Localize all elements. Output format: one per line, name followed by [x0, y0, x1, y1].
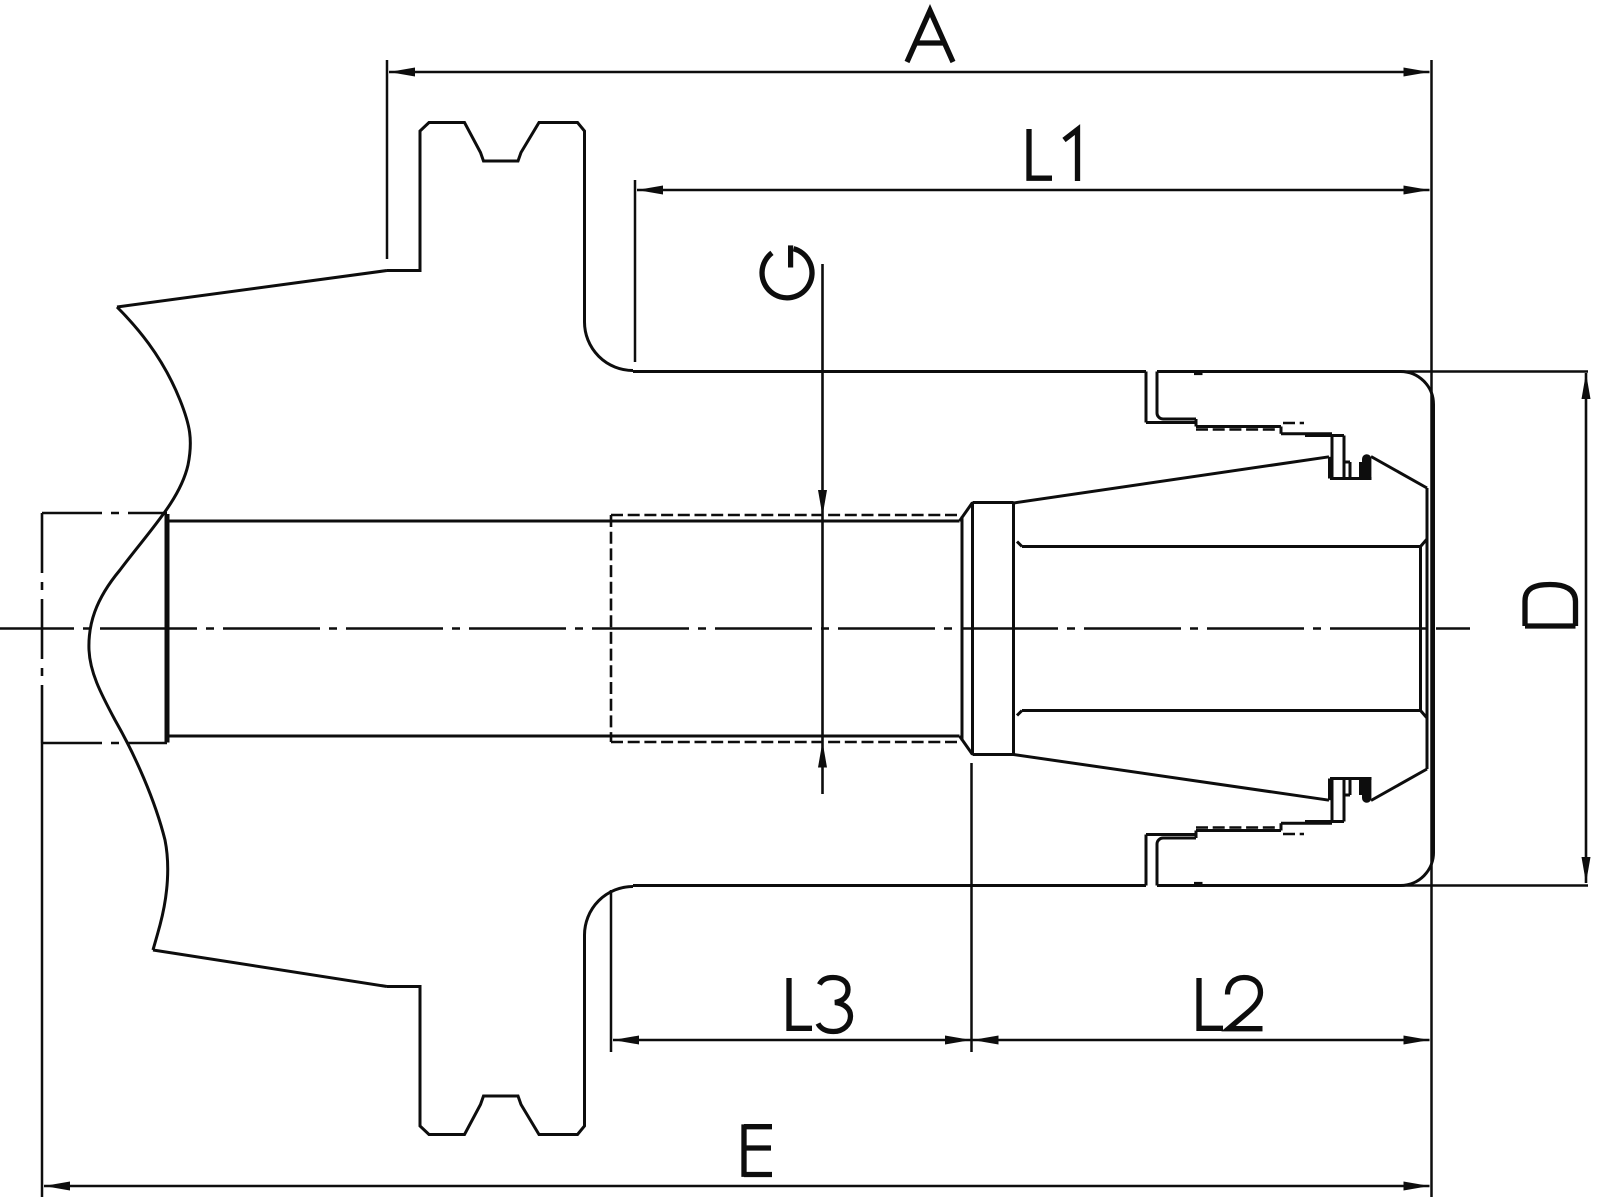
center line end dash [1436, 627, 1470, 630]
dimension L2 [973, 978, 1430, 1045]
dimension G [762, 245, 827, 794]
flange top [387, 123, 633, 371]
body top line + D extension [633, 370, 1146, 373]
dimension L3 [611, 763, 972, 1052]
collet groove pocket top [1330, 436, 1372, 479]
body cone bottom edge [153, 950, 387, 987]
center line [0, 627, 1428, 629]
label E [744, 1124, 772, 1177]
dimension D [1525, 373, 1591, 883]
collet taper top [1014, 457, 1330, 503]
cap thread steps bottom [1146, 833, 1196, 836]
label L1 [1029, 129, 1078, 181]
cap nose cone bottom [1371, 769, 1427, 801]
collet bore [1017, 542, 1022, 547]
collet groove pocket bottom [1330, 779, 1372, 822]
shaft outline [168, 520, 960, 523]
collet nose ring [971, 502, 974, 755]
cap right face with corners [1400, 371, 1434, 885]
dimension A [387, 11, 1430, 260]
thread hidden lines [611, 514, 962, 517]
label L3 [789, 978, 812, 1028]
slot body/cap top [1145, 372, 1148, 423]
shaft end face (thick) [165, 514, 170, 743]
label A [907, 11, 953, 63]
shaft end chamfers and face [961, 517, 964, 741]
cap tick top [1194, 372, 1203, 376]
cap tick bottom [1194, 882, 1203, 886]
label G (rotated) [762, 245, 812, 297]
dimension E [42, 743, 1430, 1197]
cap nose cone top [1371, 457, 1427, 489]
cap thread steps top [1146, 421, 1196, 424]
right extension line A/L1/L2/E [1430, 60, 1433, 1197]
cap outline top [1157, 370, 1400, 373]
phantom drawbar block [42, 513, 167, 743]
collet taper bottom [1014, 755, 1330, 801]
collet front face [1426, 488, 1429, 769]
break line [89, 307, 190, 950]
body cone top edge [117, 271, 387, 308]
flange bottom [387, 887, 633, 1135]
cap outline bottom [1157, 884, 1400, 887]
label L2 [1199, 978, 1223, 1028]
dimension L1 [635, 129, 1430, 362]
body bottom line + D extension [633, 884, 1146, 887]
slot body/cap bottom [1145, 835, 1148, 886]
label D (rotated) [1525, 585, 1576, 627]
